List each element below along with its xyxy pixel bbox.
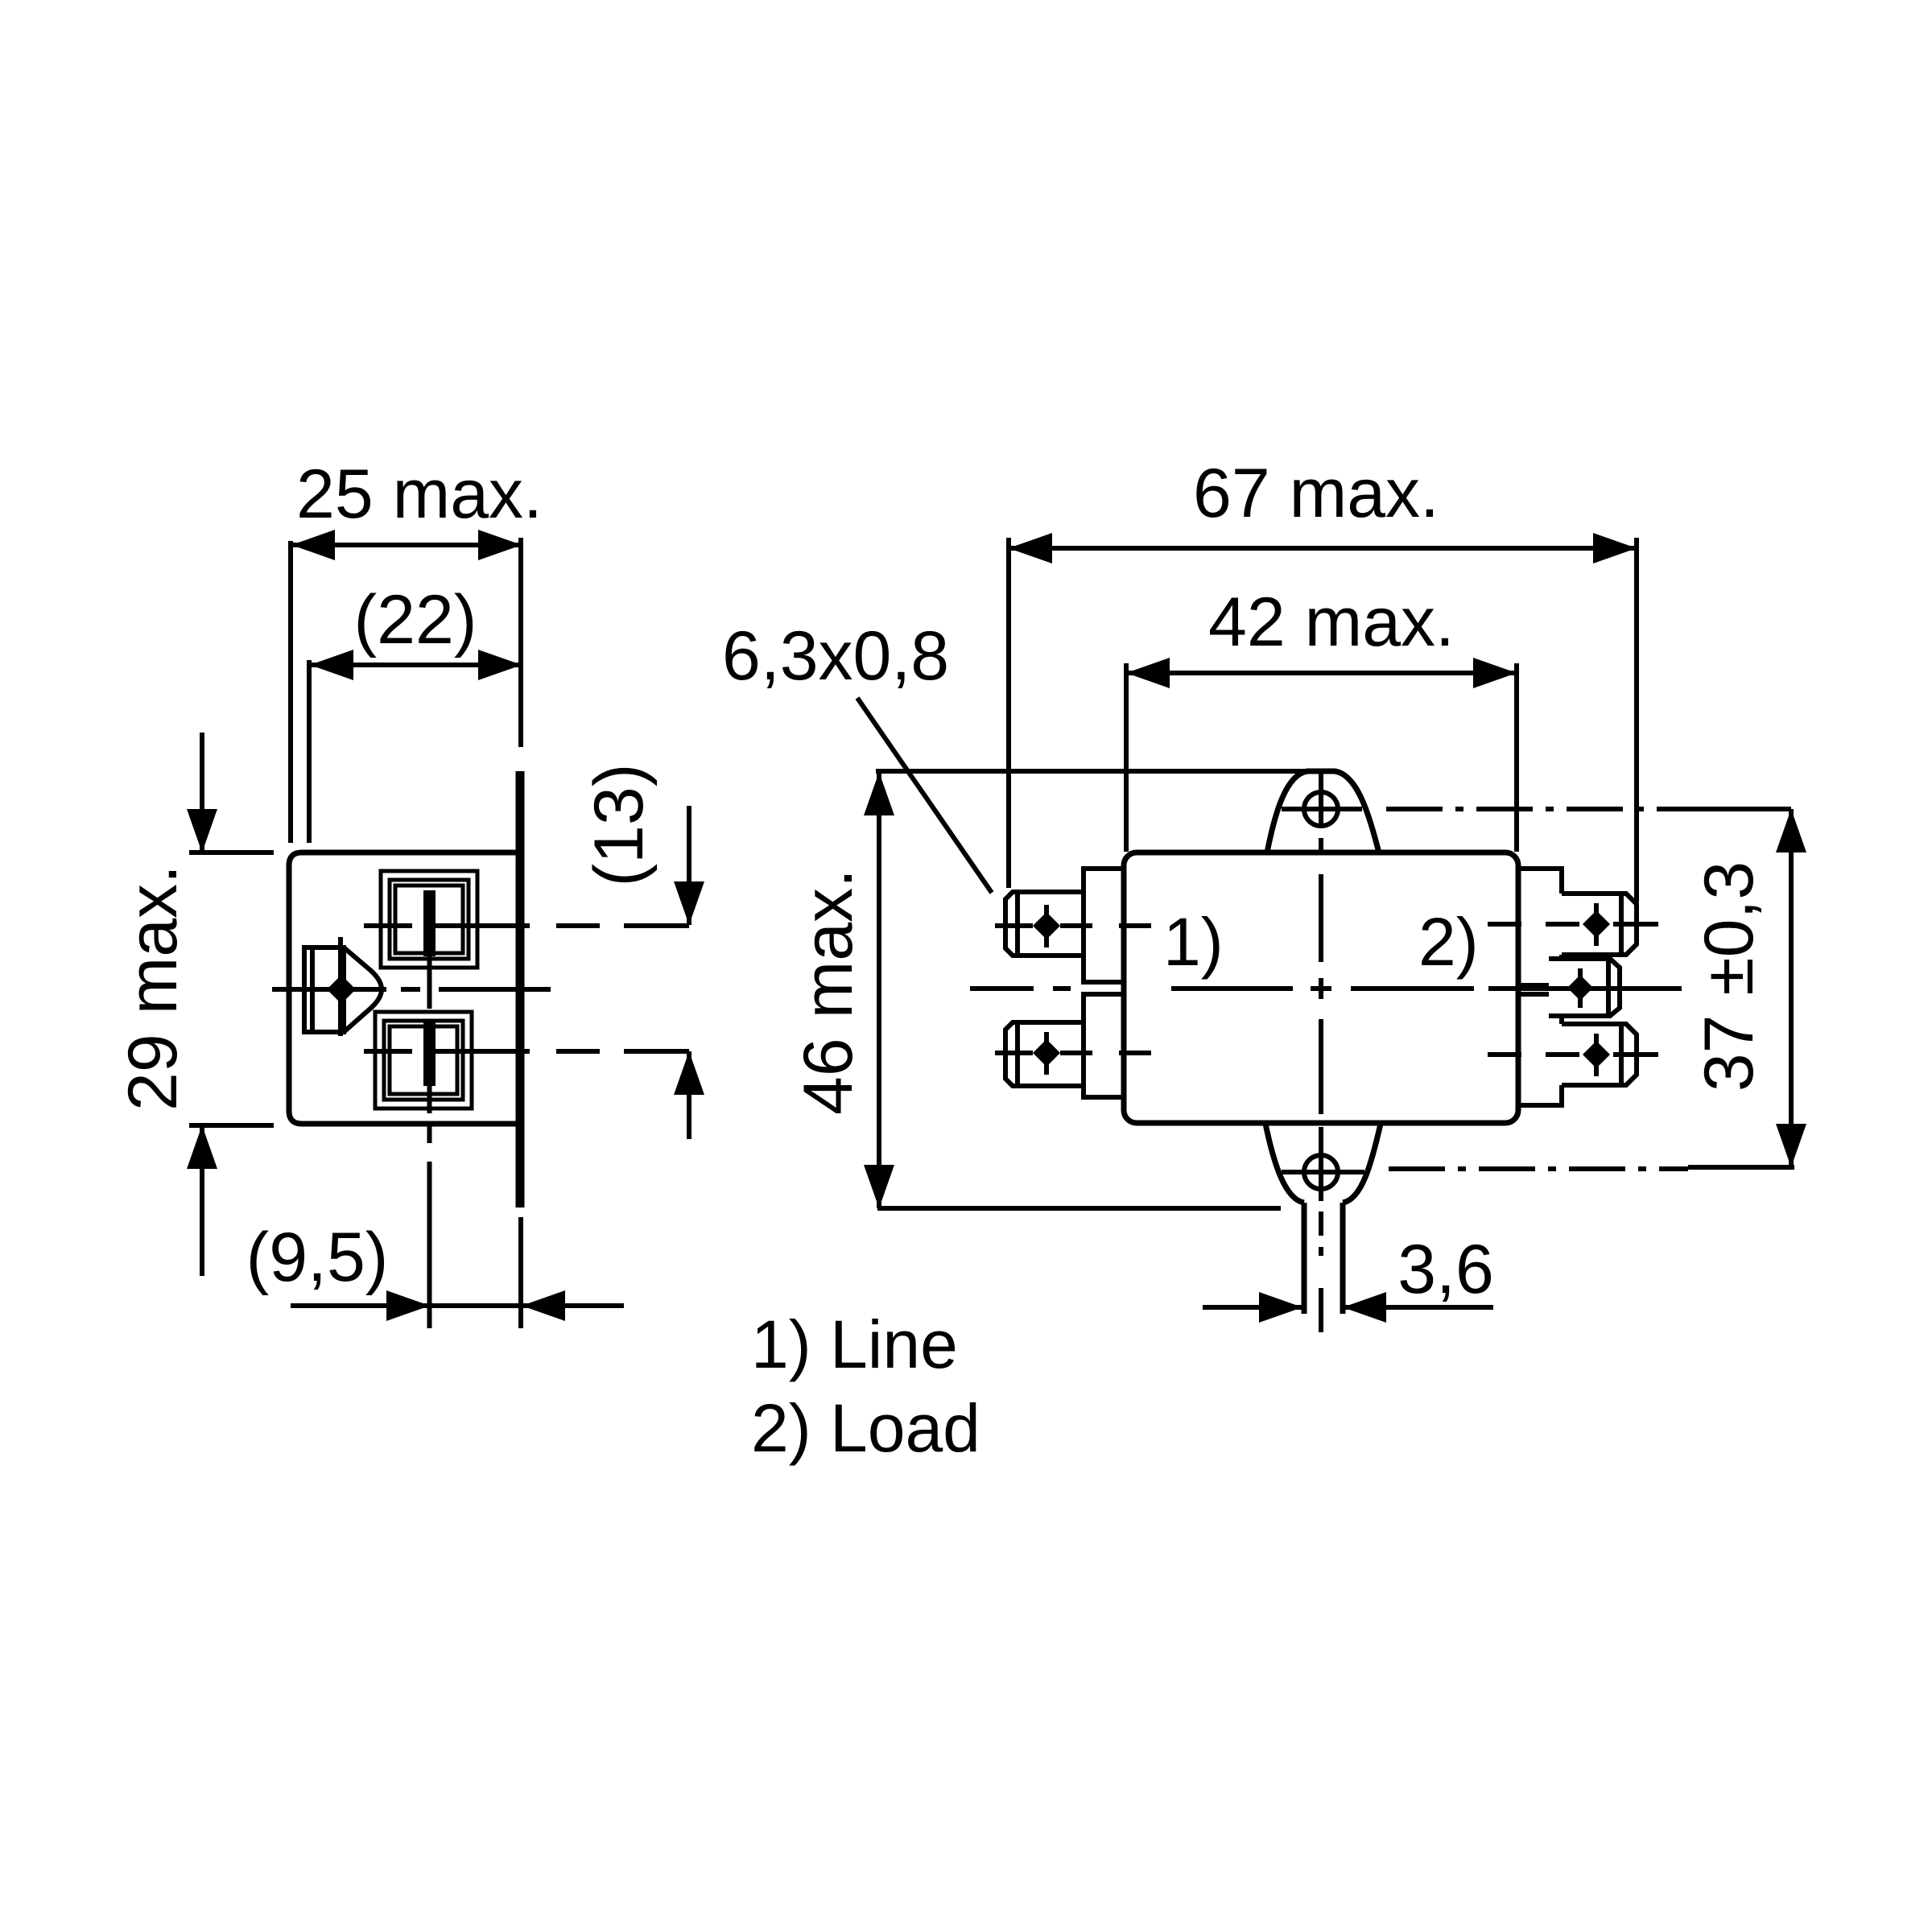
upper-right blade bbox=[1562, 894, 1637, 955]
svg-text:3,6: 3,6 bbox=[1397, 1231, 1494, 1308]
upper-left terminal centerline bbox=[995, 923, 1033, 928]
svg-text:(22): (22) bbox=[354, 581, 477, 658]
dimension 29 max extension ticks bbox=[189, 850, 274, 855]
lower-left terminal centerline bbox=[995, 1051, 1033, 1055]
upper faston receptacle (left view) bbox=[381, 871, 477, 968]
upper-right terminal centerline bbox=[1488, 922, 1521, 927]
dimension 3,6 line bbox=[1203, 1305, 1302, 1310]
label 6,3x0,8 leader line bbox=[857, 698, 992, 893]
extension line above panel bbox=[518, 538, 523, 747]
svg-text:2): 2) bbox=[1418, 904, 1479, 980]
dimension 46 max line bbox=[877, 772, 881, 1208]
dimension 25 max left extension bbox=[288, 541, 293, 843]
lower-left blade bbox=[1005, 1022, 1084, 1086]
main centerline (right view) bbox=[970, 986, 1034, 991]
lower faston blade (left view) bbox=[423, 1020, 436, 1086]
dimension 46 max extensions bbox=[876, 769, 1321, 774]
top hole centerline dash-dot bbox=[1386, 807, 1685, 811]
lower faston centerline bbox=[364, 1049, 412, 1054]
dimension (9,5) line bbox=[291, 1303, 624, 1308]
lower faston receptacle (left view) bbox=[375, 1012, 472, 1108]
svg-text:2) Load: 2) Load bbox=[751, 1390, 980, 1466]
svg-text:6,3x0,8: 6,3x0,8 bbox=[722, 617, 949, 695]
bottom mounting tab bbox=[1265, 1124, 1381, 1203]
svg-text:(13): (13) bbox=[580, 764, 658, 887]
svg-text:1): 1) bbox=[1163, 904, 1224, 980]
top mounting hole bbox=[1304, 792, 1338, 826]
upper-left blade bbox=[1005, 892, 1084, 956]
upper faston blade (left view) bbox=[423, 890, 436, 956]
dimension 25 max line bbox=[291, 543, 522, 547]
body outline (left view) bbox=[289, 852, 522, 1124]
svg-text:1) Line: 1) Line bbox=[751, 1307, 958, 1382]
lower-left terminal block bbox=[1084, 994, 1124, 1097]
mounting stem bbox=[1302, 1203, 1307, 1314]
middle-right ground blade bbox=[1549, 959, 1620, 1016]
svg-text:37 ±0,3: 37 ±0,3 bbox=[1690, 861, 1768, 1092]
dimension (13) line bbox=[687, 806, 691, 925]
dimension 37 +-0,3 line bbox=[1789, 809, 1794, 1167]
ground terminal (left view) bbox=[304, 947, 344, 1032]
svg-text:25 max.: 25 max. bbox=[296, 456, 543, 533]
bottom mounting hole bbox=[1304, 1155, 1338, 1189]
dimension 29 max line bbox=[200, 733, 204, 852]
svg-text:67 max.: 67 max. bbox=[1193, 455, 1439, 532]
svg-text:(9,5): (9,5) bbox=[246, 1219, 389, 1296]
ground terminal dimple diamond bbox=[327, 975, 356, 1004]
body outline (right view) bbox=[1124, 852, 1518, 1123]
svg-text:29 max.: 29 max. bbox=[114, 865, 192, 1111]
upper-right terminal block bbox=[1518, 869, 1562, 985]
lower-right terminal block bbox=[1518, 994, 1562, 1105]
bottom hole centerline dash-dot bbox=[1389, 1166, 1688, 1171]
main centerline (left view) bbox=[272, 987, 386, 992]
svg-text:46 max.: 46 max. bbox=[790, 869, 867, 1115]
upper faston centerline bbox=[364, 923, 412, 928]
svg-text:42 max.: 42 max. bbox=[1208, 584, 1455, 661]
dimension 67 max extensions bbox=[1006, 538, 1011, 888]
dimension (22) line bbox=[310, 663, 522, 667]
vertical centerline through fastons bbox=[427, 955, 432, 1009]
ground terminal vertical tick bbox=[338, 937, 343, 1036]
dimension 42 max extensions bbox=[1124, 663, 1129, 852]
top mounting tab bbox=[1267, 771, 1379, 852]
body vertical centerline bbox=[1319, 874, 1323, 962]
dimension 67 max line bbox=[1009, 546, 1637, 551]
lower-right blade bbox=[1562, 1024, 1637, 1085]
panel flange thick line bbox=[516, 771, 525, 1207]
dimension 37 connectors bbox=[1685, 807, 1791, 811]
dimension (22) left extension bbox=[307, 660, 312, 843]
dimension 42 max line bbox=[1126, 671, 1517, 675]
lower-right terminal centerline bbox=[1488, 1052, 1521, 1057]
upper-left terminal block bbox=[1084, 869, 1124, 982]
extension line below panel bbox=[518, 1217, 523, 1328]
